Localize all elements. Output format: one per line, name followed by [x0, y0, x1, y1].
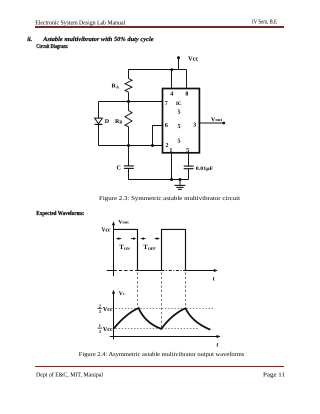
square wave Vout pulse 1 [114, 229, 138, 270]
label 5 (555 digit 1) [178, 109, 181, 115]
pin number 7 [165, 101, 168, 107]
Vc plot y-axis [112, 290, 115, 340]
diode D [95, 118, 103, 124]
svg-text:C: C [117, 165, 121, 171]
label Vout [211, 117, 223, 123]
svg-text:RA: RA [112, 84, 120, 90]
wire Vcc stem [178, 58, 180, 70]
wire low segment between pulses [138, 270, 162, 272]
label t upper [213, 277, 215, 283]
pin number 1 [169, 148, 172, 154]
svg-text:5: 5 [178, 124, 181, 130]
wire pin 3 output lead [199, 122, 223, 124]
header rule [35, 26, 284, 28]
svg-text:Vcc: Vcc [103, 327, 113, 333]
op-amp U1 555 IC body [163, 89, 200, 153]
label Vc axis [119, 291, 125, 297]
label RB [115, 119, 122, 125]
svg-text:Astable multivibrator with 50%: Astable multivibrator with 50% duty cycl… [42, 36, 154, 43]
svg-text:8: 8 [185, 91, 188, 97]
wire pin 2 horizontal [99, 145, 163, 147]
dimension arrow TON left [116, 237, 122, 240]
svg-text:2: 2 [99, 303, 101, 308]
label D [105, 119, 110, 125]
svg-text:5: 5 [178, 109, 181, 115]
svg-text:0.01µF: 0.01µF [196, 166, 214, 172]
node junction pin1/rail [170, 178, 173, 181]
wire pin 7 horizontal [99, 101, 163, 103]
wire bottom rail [129, 179, 189, 181]
pin number 4 [170, 91, 173, 97]
dashed drop line at pulse2 end [185, 272, 187, 308]
svg-text:TON: TON [119, 244, 129, 251]
svg-text:Vc: Vc [119, 291, 125, 297]
label 5 (555 digit 3) [178, 138, 181, 144]
node junction ground/rail [179, 178, 182, 181]
footer rule [35, 366, 284, 368]
svg-text:Vcc: Vcc [102, 227, 111, 233]
pin number 5 [186, 148, 189, 154]
dimension arrow TOFF right [155, 237, 160, 240]
svg-text:Vcc: Vcc [188, 55, 198, 62]
capacitor C3 0.01uF bypass [184, 153, 194, 180]
resistor RA [125, 79, 132, 93]
svg-text:Page 11: Page 11 [263, 372, 285, 379]
svg-text:1: 1 [99, 323, 101, 328]
dotted level line 1/3 Vcc [116, 328, 199, 330]
svg-text:t: t [216, 342, 218, 348]
pin number 6 [165, 123, 168, 129]
svg-text:3: 3 [99, 309, 102, 314]
svg-text:6: 6 [165, 123, 168, 129]
wire diode top lead [98, 102, 100, 119]
svg-text:ii.: ii. [27, 36, 32, 43]
label 0.01uF [196, 166, 214, 172]
label Vout axis [118, 220, 129, 226]
label C [117, 165, 121, 171]
label TON [119, 244, 129, 251]
label 2/3 Vcc [98, 303, 114, 314]
label RA [112, 84, 120, 90]
dimension arrow TON right [131, 237, 137, 240]
capacitor C [124, 146, 134, 180]
svg-text:RB: RB [115, 119, 122, 125]
svg-text:Vout: Vout [211, 117, 223, 123]
svg-text:Dept of E&C, MIT, Manipal: Dept of E&C, MIT, Manipal [36, 372, 103, 379]
node junction RA/RB/pin7 [127, 100, 130, 103]
svg-text:Vout: Vout [118, 220, 129, 226]
svg-text:Vcc: Vcc [103, 307, 113, 313]
pin number 2 [166, 143, 169, 149]
svg-text:5: 5 [178, 138, 181, 144]
wire RA top lead [128, 70, 130, 79]
Vc plot x-axis [110, 335, 221, 338]
dashed drop line at TOFF edge [161, 272, 163, 327]
svg-text:3: 3 [193, 123, 196, 129]
node junction RB/C [127, 144, 130, 147]
svg-text:7: 7 [165, 101, 168, 107]
wire pin 4 lead [171, 70, 173, 89]
svg-text:Expected Waveforms:: Expected Waveforms: [36, 210, 84, 217]
svg-text:5: 5 [186, 148, 189, 154]
wire RB top lead [128, 102, 130, 111]
node Vcc terminal dot [177, 56, 180, 59]
svg-text:2: 2 [166, 143, 169, 149]
Vout plot x-axis [107, 269, 218, 272]
svg-text:Figure 2.3: Symmetric astable: Figure 2.3: Symmetric astable multivibra… [99, 195, 240, 202]
label 1/3 Vcc [98, 323, 114, 334]
node junction pin4/Vcc [170, 68, 173, 71]
label TOFF [143, 244, 156, 251]
capacitor voltage curve [114, 308, 211, 330]
svg-text:Figure 2.4: Asymmetric astable: Figure 2.4: Asymmetric astable multivibr… [79, 351, 245, 358]
svg-text:t: t [213, 277, 215, 283]
node junction pin6 drop [151, 144, 154, 147]
svg-text:IV Sem, B.E: IV Sem, B.E [252, 19, 277, 26]
label Vcc level [102, 227, 111, 233]
dimension arrow TOFF left [140, 237, 145, 240]
label t lower [216, 342, 218, 348]
svg-text:TOFF: TOFF [143, 244, 156, 251]
resistor RB [125, 111, 132, 127]
dotted level line 2/3 Vcc [116, 308, 215, 310]
svg-text:IC: IC [176, 101, 182, 107]
wire RA bottom lead [128, 92, 130, 101]
wire RB bottom lead [128, 127, 130, 146]
wire diode bottom lead [98, 124, 100, 145]
svg-text:D: D [105, 119, 110, 125]
pin number 3 [193, 123, 196, 129]
svg-text:Electronic System Design Lab M: Electronic System Design Lab Manual [35, 19, 125, 26]
label 5 (555 digit 2) [178, 124, 181, 130]
wire pin 1 lead [171, 153, 173, 180]
node Vout terminal dot [222, 122, 225, 125]
square wave Vout pulse 2 [162, 229, 186, 270]
ground [174, 180, 185, 190]
pin number 8 [185, 91, 188, 97]
Vout plot y-axis [112, 221, 115, 276]
wire top supply rail [128, 69, 187, 71]
wire pin 6 jog [153, 126, 163, 146]
label Vcc [188, 55, 198, 62]
svg-text:3: 3 [99, 329, 102, 334]
wire pin 8 lead [186, 70, 188, 89]
svg-text:1: 1 [169, 148, 172, 154]
svg-text:Circuit Diagram:: Circuit Diagram: [36, 43, 68, 50]
svg-text:4: 4 [170, 91, 173, 97]
label IC [176, 101, 182, 107]
dashed drop line at TON edge [137, 272, 139, 307]
